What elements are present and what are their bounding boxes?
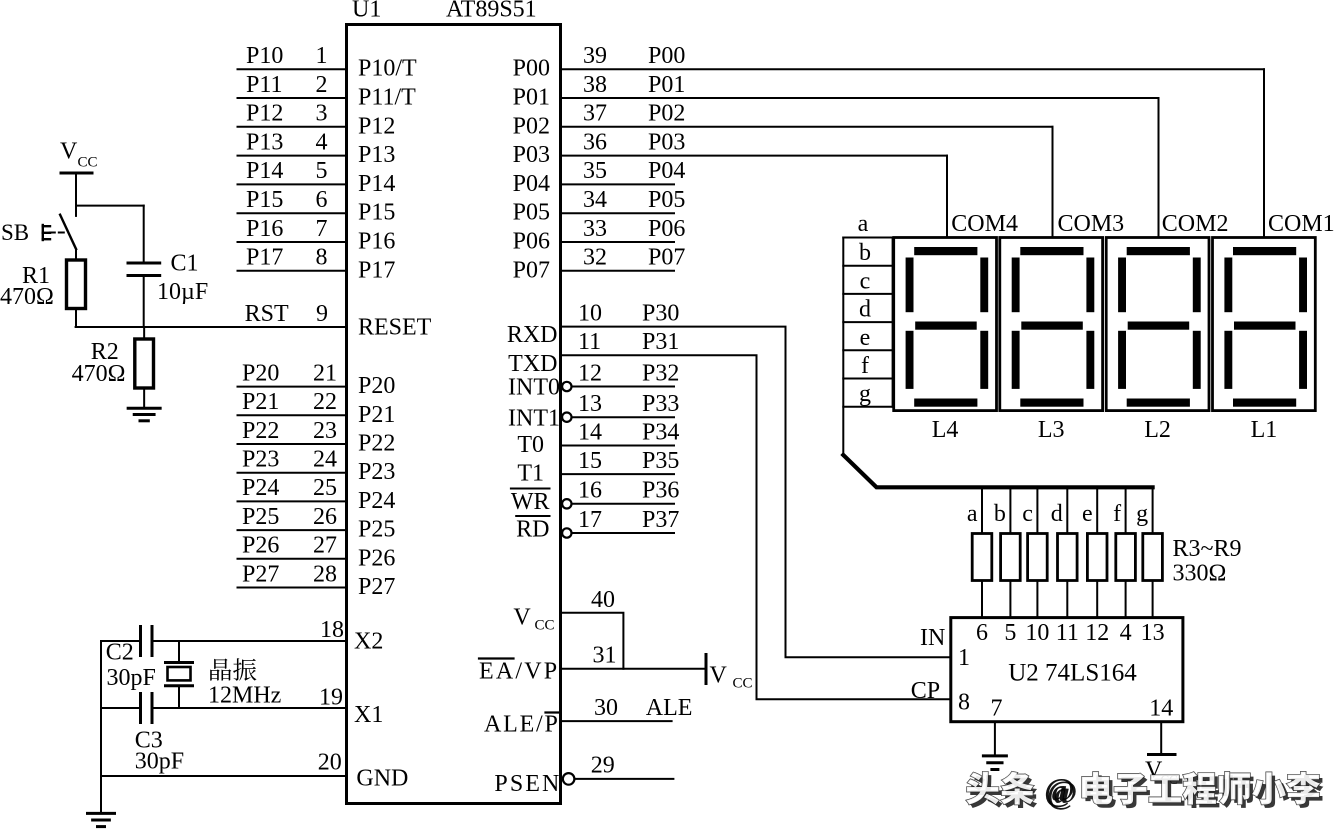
svg-text:4: 4 (1120, 620, 1132, 646)
svg-text:P16: P16 (358, 229, 395, 255)
svg-text:T1: T1 (517, 461, 544, 487)
svg-text:39: 39 (583, 43, 607, 69)
svg-text:P06: P06 (513, 229, 550, 255)
svg-text:12: 12 (1085, 620, 1109, 646)
svg-text:P04: P04 (648, 158, 685, 184)
svg-text:12MHz: 12MHz (208, 683, 281, 709)
svg-text:P33: P33 (642, 391, 679, 417)
svg-text:13: 13 (1141, 620, 1165, 646)
svg-text:P07: P07 (648, 245, 685, 271)
svg-text:P22: P22 (242, 418, 279, 444)
svg-text:g: g (859, 381, 871, 407)
svg-text:8: 8 (958, 690, 970, 716)
svg-text:X1: X1 (354, 702, 383, 728)
svg-text:d: d (859, 297, 871, 323)
svg-text:P07: P07 (513, 257, 550, 283)
svg-text:P22: P22 (358, 431, 395, 457)
svg-text:22: 22 (313, 389, 337, 415)
svg-text:P03: P03 (648, 129, 685, 155)
svg-text:8: 8 (316, 245, 328, 271)
svg-text:P00: P00 (513, 56, 550, 82)
svg-text:P14: P14 (246, 158, 283, 184)
svg-text:U2 74LS164: U2 74LS164 (1008, 660, 1137, 687)
svg-text:AT89S51: AT89S51 (446, 0, 537, 23)
svg-text:3: 3 (316, 101, 328, 127)
svg-text:P26: P26 (242, 533, 279, 559)
svg-text:P20: P20 (242, 360, 279, 386)
svg-text:470Ω: 470Ω (72, 361, 126, 387)
svg-text:1: 1 (958, 645, 970, 671)
svg-text:P01: P01 (648, 72, 685, 98)
svg-text:24: 24 (313, 447, 337, 473)
svg-text:P02: P02 (513, 113, 550, 139)
svg-text:P36: P36 (642, 478, 679, 504)
svg-text:P01: P01 (513, 85, 550, 111)
svg-text:COM2: COM2 (1162, 211, 1229, 237)
svg-text:14: 14 (1149, 696, 1173, 722)
svg-text:C1: C1 (171, 251, 199, 277)
svg-text:b: b (994, 501, 1006, 527)
svg-text:TXD: TXD (508, 351, 557, 377)
svg-text:P12: P12 (246, 101, 283, 127)
svg-text:RD: RD (516, 516, 549, 542)
svg-text:P27: P27 (358, 574, 395, 600)
svg-text:P14: P14 (358, 171, 395, 197)
svg-text:P21: P21 (358, 402, 395, 428)
svg-text:12: 12 (578, 360, 602, 386)
svg-text:PSEN: PSEN (494, 771, 561, 797)
svg-text:330Ω: 330Ω (1173, 561, 1227, 587)
svg-text:36: 36 (583, 129, 607, 155)
svg-text:P00: P00 (648, 43, 685, 69)
svg-text:COM4: COM4 (951, 211, 1018, 237)
svg-text:31: 31 (593, 643, 617, 669)
svg-text:10: 10 (1025, 620, 1049, 646)
svg-text:P02: P02 (648, 101, 685, 127)
svg-text:L4: L4 (932, 417, 959, 443)
svg-text:P30: P30 (642, 300, 679, 326)
svg-text:9: 9 (316, 301, 328, 327)
svg-text:P23: P23 (242, 447, 279, 473)
svg-text:34: 34 (583, 187, 607, 213)
svg-text:RESET: RESET (358, 315, 432, 341)
svg-text:@: @ (1044, 772, 1075, 808)
svg-text:EA/VP: EA/VP (479, 659, 559, 685)
svg-text:19: 19 (319, 685, 343, 711)
svg-text:P37: P37 (642, 507, 679, 533)
svg-text:1: 1 (316, 43, 328, 69)
svg-text:10µF: 10µF (157, 279, 208, 305)
svg-text:L1: L1 (1251, 417, 1278, 443)
svg-text:20: 20 (318, 750, 342, 776)
svg-text:33: 33 (583, 216, 607, 242)
svg-text:d: d (1051, 501, 1063, 527)
svg-text:RST: RST (245, 301, 289, 327)
svg-text:CC: CC (78, 155, 98, 171)
svg-text:CC: CC (535, 618, 555, 634)
svg-text:30pF: 30pF (135, 749, 184, 775)
svg-text:R3~R9: R3~R9 (1173, 536, 1242, 562)
svg-text:6: 6 (316, 187, 328, 213)
svg-text:P17: P17 (246, 245, 283, 271)
svg-text:P35: P35 (642, 448, 679, 474)
svg-text:b: b (859, 240, 871, 266)
svg-text:P11: P11 (246, 72, 282, 98)
svg-text:P25: P25 (358, 517, 395, 543)
svg-text:15: 15 (578, 448, 602, 474)
svg-text:U1: U1 (352, 0, 381, 23)
svg-text:18: 18 (320, 617, 344, 643)
svg-text:P21: P21 (242, 389, 279, 415)
svg-text:V: V (710, 663, 728, 689)
svg-text:c: c (1022, 501, 1033, 527)
svg-text:GND: GND (356, 766, 408, 792)
svg-text:IN: IN (920, 625, 945, 651)
svg-text:a: a (967, 501, 978, 527)
svg-text:P26: P26 (358, 545, 395, 571)
svg-text:COM3: COM3 (1058, 211, 1125, 237)
svg-text:L2: L2 (1144, 417, 1171, 443)
svg-text:38: 38 (583, 72, 607, 98)
svg-text:P10: P10 (246, 43, 283, 69)
svg-text:P10/T: P10/T (358, 56, 417, 82)
svg-text:CP: CP (911, 678, 940, 704)
svg-text:CC: CC (733, 676, 753, 692)
svg-text:5: 5 (316, 158, 328, 184)
svg-text:P06: P06 (648, 216, 685, 242)
svg-text:17: 17 (578, 507, 602, 533)
svg-text:L3: L3 (1038, 417, 1065, 443)
svg-text:21: 21 (313, 360, 337, 386)
svg-text:COM1: COM1 (1268, 211, 1335, 237)
svg-text:P23: P23 (358, 459, 395, 485)
svg-text:P27: P27 (242, 561, 279, 587)
svg-text:470Ω: 470Ω (0, 284, 54, 310)
svg-text:P11/T: P11/T (358, 85, 416, 111)
svg-text:P24: P24 (242, 475, 279, 501)
svg-text:40: 40 (591, 587, 615, 613)
svg-text:35: 35 (583, 158, 607, 184)
svg-text:P24: P24 (358, 488, 395, 514)
svg-text:11: 11 (578, 329, 601, 355)
svg-text:7: 7 (991, 696, 1003, 722)
svg-text:P16: P16 (246, 216, 283, 242)
svg-text:V: V (513, 605, 531, 631)
svg-text:c: c (860, 268, 871, 294)
svg-text:P32: P32 (642, 360, 679, 386)
svg-text:P12: P12 (358, 113, 395, 139)
svg-text:29: 29 (591, 753, 615, 779)
svg-text:25: 25 (313, 475, 337, 501)
svg-text:V: V (60, 139, 78, 165)
svg-text:26: 26 (313, 504, 337, 530)
svg-text:P25: P25 (242, 504, 279, 530)
svg-text:SB: SB (1, 220, 29, 245)
svg-text:f: f (861, 353, 869, 379)
svg-text:P05: P05 (513, 200, 550, 226)
svg-text:11: 11 (1056, 620, 1079, 646)
svg-text:a: a (858, 211, 869, 237)
svg-text:e: e (860, 325, 871, 351)
svg-text:2: 2 (316, 72, 328, 98)
svg-text:P05: P05 (648, 187, 685, 213)
svg-text:P20: P20 (358, 373, 395, 399)
svg-text:28: 28 (313, 561, 337, 587)
svg-text:32: 32 (583, 245, 607, 271)
svg-text:f: f (1113, 501, 1121, 527)
svg-text:X2: X2 (354, 629, 383, 655)
svg-text:P31: P31 (642, 329, 679, 355)
svg-text:30: 30 (594, 695, 618, 721)
svg-text:P13: P13 (358, 142, 395, 168)
svg-text:P34: P34 (642, 419, 679, 445)
svg-text:13: 13 (578, 391, 602, 417)
svg-text:C2: C2 (106, 640, 134, 666)
svg-text:10: 10 (578, 300, 602, 326)
svg-text:23: 23 (313, 418, 337, 444)
svg-text:P15: P15 (358, 200, 395, 226)
svg-text:7: 7 (316, 216, 328, 242)
svg-text:6: 6 (976, 620, 988, 646)
svg-text:P03: P03 (513, 142, 550, 168)
svg-text:ALE: ALE (646, 695, 693, 721)
svg-text:P04: P04 (513, 171, 550, 197)
svg-text:27: 27 (313, 533, 337, 559)
svg-text:P17: P17 (358, 257, 395, 283)
svg-text:RXD: RXD (507, 322, 558, 348)
svg-text:14: 14 (578, 419, 602, 445)
svg-text:T0: T0 (517, 432, 544, 458)
svg-text:P15: P15 (246, 187, 283, 213)
svg-text:INT1: INT1 (508, 405, 560, 431)
svg-text:4: 4 (316, 129, 328, 155)
svg-text:INT0: INT0 (508, 375, 560, 401)
svg-text:5: 5 (1004, 620, 1016, 646)
svg-text:37: 37 (583, 101, 607, 127)
svg-text:30pF: 30pF (107, 665, 156, 691)
svg-text:16: 16 (578, 478, 602, 504)
svg-text:ALE/P: ALE/P (484, 712, 560, 738)
svg-text:P13: P13 (246, 129, 283, 155)
svg-text:e: e (1082, 501, 1093, 527)
svg-text:WR: WR (511, 489, 550, 515)
svg-text:g: g (1136, 501, 1148, 527)
